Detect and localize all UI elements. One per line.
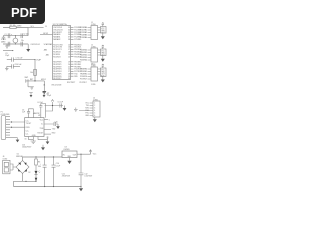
svg-text:R1 10k: R1 10k	[10, 25, 16, 27]
svg-text:C5 1uF: C5 1uF	[58, 102, 64, 104]
svg-text:CON5: CON5	[91, 24, 96, 26]
svg-text:24: 24	[68, 56, 70, 58]
svg-text:CONN DB9: CONN DB9	[1, 114, 10, 116]
bridge rectifier D1	[16, 161, 29, 174]
svg-text:RD7/PSP7: RD7/PSP7	[67, 82, 75, 84]
svg-text:SCL: SCL	[31, 26, 34, 28]
svg-text:VCC: VCC	[93, 154, 97, 156]
svg-text:PD3/RD3: PD3/RD3	[80, 57, 87, 59]
wire psu top rail	[23, 157, 63, 161]
svg-text:R1IN: R1IN	[26, 127, 31, 129]
svg-text:10k: 10k	[30, 72, 33, 74]
svg-text:14: 14	[43, 85, 45, 87]
capacitor C13	[43, 157, 47, 187]
svg-text:PC6/RC6: PC6/RC6	[80, 76, 87, 78]
capacitor C3	[8, 42, 10, 47]
svg-text:MCLR: MCLR	[41, 79, 47, 81]
LED D2	[35, 171, 38, 174]
ground (extra right)	[74, 108, 78, 112]
ground (reset right)	[43, 81, 45, 91]
svg-text:470uF/25V: 470uF/25V	[62, 176, 71, 178]
svg-text:SW1: SW1	[25, 77, 29, 79]
svg-text:D2: D2	[28, 172, 30, 174]
ground (U2 bottom)	[31, 140, 36, 144]
wire U1 left pin row4	[40, 34, 53, 36]
regulator U3 LM7805	[62, 151, 77, 158]
svg-text:PD0/RD0: PD0/RD0	[80, 50, 87, 52]
capacitor C12	[79, 154, 84, 186]
svg-text:PC5/RB5: PC5/RB5	[74, 39, 81, 41]
svg-text:TXD: TXD	[52, 128, 56, 130]
svg-text:C8 0.1uF: C8 0.1uF	[15, 64, 22, 66]
svg-text:22p: 22p	[21, 40, 24, 42]
svg-text:C4 1uF: C4 1uF	[37, 102, 43, 104]
U2 pin names	[26, 120, 37, 137]
resistor R2	[34, 69, 37, 75]
svg-text:PC1/RB1: PC1/RB1	[80, 30, 87, 32]
svg-text:30: 30	[68, 78, 70, 80]
capacitor C5	[60, 103, 61, 107]
ground (C5)	[64, 106, 66, 109]
diode (bridge TL)	[18, 163, 21, 166]
svg-text:C7 0.1uF: C7 0.1uF	[16, 58, 23, 60]
node DB9 junctions	[11, 121, 12, 122]
switch SW1 wire	[26, 79, 40, 82]
svg-text:MCLR: MCLR	[43, 33, 49, 35]
svg-text:RXD: RXD	[74, 76, 78, 78]
svg-text:13: 13	[45, 26, 47, 28]
capacitor C14	[52, 157, 56, 187]
wire DB9 pin3 to U2	[10, 122, 25, 138]
svg-text:RXD: RXD	[52, 133, 56, 135]
svg-text:OSC1/CLKIN: OSC1/CLKIN	[51, 85, 62, 87]
svg-text:U1 PIC16F877A: U1 PIC16F877A	[53, 23, 68, 26]
svg-text:CON5: CON5	[91, 66, 96, 68]
connector P1 DB9	[1, 116, 10, 140]
svg-text:VCAP: VCAP	[36, 58, 41, 61]
wire VCC output	[77, 150, 92, 154]
power VCC arrow (U2)	[45, 100, 65, 111]
svg-text:MAX232: MAX232	[33, 112, 40, 115]
svg-text:VCC: VCC	[101, 50, 105, 52]
svg-text:38: 38	[68, 39, 70, 41]
ground triangle (rail2 right)	[26, 49, 30, 52]
svg-text:PC2/RB2: PC2/RB2	[80, 32, 87, 34]
svg-text:GND: GND	[101, 71, 105, 73]
U2 right pins	[44, 120, 58, 134]
svg-text:GND: GND	[85, 115, 90, 117]
svg-text:PD4/RD4: PD4/RD4	[80, 60, 87, 62]
svg-text:OUT: OUT	[73, 154, 77, 156]
diode (bridge TR)	[24, 163, 27, 165]
capacitor C8 (row 66.4)	[7, 64, 20, 68]
svg-text:6: 6	[94, 115, 95, 117]
U1 right pin stubs	[71, 27, 74, 76]
wire row 50.6	[3, 50, 13, 52]
svg-text:22pF: 22pF	[5, 55, 9, 57]
svg-text:PE0/RE0: PE0/RE0	[80, 69, 87, 71]
capacitor C3 (U2 top left)	[27, 109, 33, 118]
ground (rail1 left)	[2, 36, 5, 40]
svg-text:RC5/SDO: RC5/SDO	[53, 56, 61, 58]
svg-text:PC0/RB0: PC0/RB0	[80, 27, 87, 29]
connector J6 terminal	[3, 160, 16, 174]
capacitor C7 (VCAP row)	[7, 57, 35, 61]
svg-text:U2: U2	[38, 115, 40, 117]
capacitor C2	[21, 33, 23, 38]
wire rail1	[3, 35, 28, 37]
svg-text:C2+: C2+	[26, 131, 29, 133]
svg-text:R1OUT: R1OUT	[37, 132, 43, 134]
wire MCLR stub	[27, 28, 29, 36]
U1 pin numbers right column	[68, 27, 70, 80]
svg-text:T1OUT: T1OUT	[26, 123, 32, 125]
svg-text:PE2/RE2: PE2/RE2	[80, 74, 87, 76]
ground (J3)	[101, 80, 105, 83]
ground (J4)	[93, 119, 97, 122]
wire rail2	[3, 43, 28, 45]
svg-text:VCAP/RA5: VCAP/RA5	[44, 43, 52, 46]
svg-text:4MHz: 4MHz	[17, 25, 22, 27]
svg-text:1uF: 1uF	[22, 112, 25, 114]
svg-text:V+: V+	[41, 124, 43, 126]
svg-text:CON2: CON2	[3, 158, 8, 160]
svg-text:0.1uF: 0.1uF	[56, 165, 60, 167]
resistor R3	[35, 157, 38, 171]
svg-text:330: 330	[38, 166, 41, 168]
svg-text:LM7805: LM7805	[64, 149, 70, 151]
ground triangle (reset right)	[42, 91, 46, 94]
svg-text:RST: RST	[30, 79, 33, 81]
wire reset vertical	[34, 60, 36, 81]
svg-text:RD7/PSP7: RD7/PSP7	[53, 78, 61, 80]
svg-text:CON5: CON5	[91, 47, 96, 49]
ground (rail2 left)	[5, 44, 8, 48]
svg-text:C6: C6	[46, 94, 48, 96]
svg-text:PC3/RB3: PC3/RB3	[80, 35, 87, 37]
svg-text:CON6: CON6	[93, 100, 98, 102]
svg-text:C1+: C1+	[26, 120, 29, 122]
ground (psu end)	[80, 187, 82, 189]
ground (SW1)	[28, 83, 34, 90]
svg-text:1000uF/25V: 1000uF/25V	[22, 147, 32, 149]
svg-text:C2-: C2-	[26, 134, 29, 136]
svg-text:16: 16	[25, 138, 27, 140]
op-amp U2 MAX232 box	[25, 118, 44, 137]
ground (rail2 right)	[27, 44, 29, 49]
U2 bottom stubs	[29, 137, 49, 144]
svg-text:GND: GND	[101, 30, 105, 32]
svg-text:OUT: OUT	[101, 74, 104, 76]
wire R1 to U1	[28, 27, 44, 29]
ground (C9b)	[46, 142, 50, 145]
svg-text:CON5: CON5	[91, 84, 96, 86]
svg-text:OUT: OUT	[101, 32, 104, 34]
capacitor C4 (U2 top right)	[39, 104, 45, 118]
wire psu bottom network	[14, 174, 82, 187]
crystal Y1	[13, 38, 18, 43]
svg-text:GND: GND	[101, 52, 105, 54]
svg-text:4MHz: 4MHz	[1, 41, 6, 43]
svg-text:VCC: VCC	[101, 69, 105, 71]
U1 left net labels	[43, 33, 52, 56]
svg-text:C1: C1	[4, 34, 6, 36]
svg-text:5: 5	[49, 119, 50, 121]
svg-text:RA2/AN2: RA2/AN2	[53, 38, 60, 41]
svg-text:PC4/RB4: PC4/RB4	[80, 37, 87, 39]
op-amp U1 PIC16F877A box	[53, 26, 71, 80]
ground (C8)	[5, 66, 8, 70]
svg-text:VCC: VCC	[40, 119, 44, 121]
capacitor C1	[8, 33, 10, 38]
svg-text:C2 22p: C2 22p	[23, 34, 29, 36]
diode (bridge BR)	[24, 169, 27, 172]
svg-text:AN0: AN0	[44, 48, 47, 51]
svg-text:IN: IN	[63, 154, 65, 156]
diode (bridge BL)	[18, 169, 20, 171]
ground (above psu)	[42, 145, 44, 148]
ground (DB9 shell)	[17, 138, 19, 140]
capacitor C4	[21, 42, 23, 47]
svg-text:PE1/RE1: PE1/RE1	[80, 71, 87, 73]
node rail junctions	[35, 156, 36, 157]
ground (J1)	[101, 36, 105, 39]
U1 pin names left column	[53, 27, 63, 80]
svg-text:PD1/RD1: PD1/RD1	[80, 52, 87, 54]
svg-text:T1IN: T1IN	[40, 128, 44, 130]
ground (J2)	[101, 59, 105, 62]
svg-text:OSC2/CLKO: OSC2/CLKO	[30, 44, 40, 46]
PDF badge overlay	[0, 0, 45, 24]
svg-text:+: +	[40, 163, 42, 165]
svg-text:PD7/RD7: PD7/RD7	[80, 82, 87, 84]
svg-text:PC7/RC7: PC7/RC7	[80, 79, 87, 81]
svg-text:C10: C10	[55, 122, 58, 124]
ground (U3)	[69, 158, 71, 161]
node reset junction	[34, 80, 35, 81]
svg-text:VCC: VCC	[101, 28, 105, 30]
capacitor C9b	[38, 137, 48, 140]
resistor R1	[3, 27, 28, 29]
svg-text:AN1: AN1	[46, 53, 49, 56]
svg-text:0.1uF/50V: 0.1uF/50V	[84, 176, 93, 178]
svg-text:PD2/RD2: PD2/RD2	[80, 55, 87, 57]
svg-text:OUT: OUT	[101, 55, 104, 57]
U1 right net labels	[74, 27, 81, 78]
